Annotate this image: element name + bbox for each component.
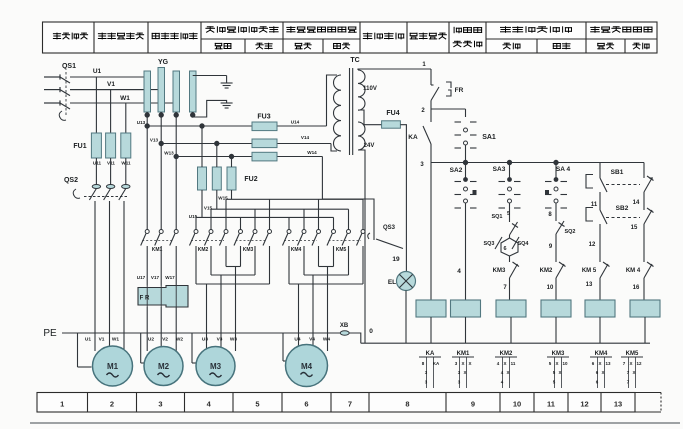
svg-text:U4: U4 <box>294 337 300 343</box>
svg-text:V3: V3 <box>217 337 223 343</box>
svg-text:V2: V2 <box>162 337 168 343</box>
svg-text:X: X <box>468 361 471 366</box>
svg-text:FU4: FU4 <box>386 110 399 117</box>
svg-text:5: 5 <box>507 211 510 217</box>
svg-text:4: 4 <box>457 268 461 275</box>
svg-text:SA1: SA1 <box>482 134 496 141</box>
svg-text:8: 8 <box>405 400 409 409</box>
svg-text:V1: V1 <box>107 81 115 88</box>
svg-text:V1: V1 <box>99 337 105 343</box>
svg-text:10: 10 <box>562 361 568 366</box>
svg-text:PE: PE <box>43 328 57 339</box>
svg-text:KM4: KM4 <box>595 351 608 357</box>
svg-text:12: 12 <box>580 400 588 409</box>
svg-text:12: 12 <box>636 361 642 366</box>
svg-text:KA: KA <box>433 361 440 366</box>
svg-text:KM 5: KM 5 <box>582 268 597 274</box>
svg-text:QS2: QS2 <box>64 177 78 184</box>
svg-text:V11: V11 <box>107 161 115 166</box>
svg-text:SA3: SA3 <box>493 166 506 173</box>
svg-text:X: X <box>632 370 635 375</box>
svg-text:15: 15 <box>631 225 638 231</box>
svg-text:FU3: FU3 <box>257 114 270 121</box>
svg-text:X: X <box>629 361 632 366</box>
svg-text:11: 11 <box>511 361 516 366</box>
svg-text:X: X <box>601 370 604 375</box>
svg-text:X: X <box>558 370 561 375</box>
svg-text:KM2: KM2 <box>500 351 513 357</box>
svg-text:19: 19 <box>392 256 400 263</box>
svg-text:13: 13 <box>605 361 611 366</box>
svg-text:V13: V13 <box>150 138 159 143</box>
svg-text:U17: U17 <box>137 275 146 280</box>
svg-text:SQ2: SQ2 <box>564 229 575 235</box>
svg-text:FR: FR <box>455 87 464 94</box>
svg-text:U14: U14 <box>291 120 300 125</box>
svg-text:W13: W13 <box>164 151 174 156</box>
svg-text:KM5: KM5 <box>336 247 347 253</box>
svg-text:M4: M4 <box>301 362 313 371</box>
svg-text:KM1: KM1 <box>457 351 470 357</box>
svg-text:FU1: FU1 <box>73 143 86 150</box>
svg-text:KM3: KM3 <box>493 268 506 274</box>
svg-text:KA: KA <box>426 351 435 357</box>
svg-text:13: 13 <box>614 400 622 409</box>
svg-text:KM2: KM2 <box>540 268 553 274</box>
svg-text:KM2: KM2 <box>198 247 209 253</box>
svg-text:110V: 110V <box>363 86 377 92</box>
svg-text:U13: U13 <box>137 120 146 125</box>
svg-text:KM3: KM3 <box>243 247 254 253</box>
svg-text:V14: V14 <box>301 135 310 140</box>
svg-text:16: 16 <box>633 285 640 291</box>
svg-text:SB1: SB1 <box>611 169 624 176</box>
svg-text:M3: M3 <box>210 362 222 371</box>
svg-text:11: 11 <box>547 400 555 409</box>
svg-text:6: 6 <box>304 400 308 409</box>
svg-text:13: 13 <box>586 282 593 288</box>
svg-text:X: X <box>555 361 558 366</box>
svg-text:SA 4: SA 4 <box>556 166 571 173</box>
svg-text:2: 2 <box>110 400 114 409</box>
svg-text:SB2: SB2 <box>616 205 629 212</box>
svg-text:KM3: KM3 <box>552 351 565 357</box>
svg-text:SQ1: SQ1 <box>491 214 502 220</box>
svg-text:M1: M1 <box>107 362 119 371</box>
svg-text:XB: XB <box>340 323 349 329</box>
svg-text:24V: 24V <box>364 143 375 149</box>
svg-text:SA2: SA2 <box>450 167 463 174</box>
svg-text:SQ4: SQ4 <box>517 241 529 247</box>
svg-text:TC: TC <box>350 57 359 64</box>
svg-text:7: 7 <box>348 400 352 409</box>
svg-text:U11: U11 <box>93 161 102 166</box>
svg-text:W3: W3 <box>230 337 238 343</box>
svg-text:SQ3: SQ3 <box>483 241 494 247</box>
svg-text:KM5: KM5 <box>626 351 639 357</box>
svg-text:QS3: QS3 <box>383 225 396 231</box>
svg-text:X: X <box>598 361 601 366</box>
svg-text:3: 3 <box>158 400 162 409</box>
svg-text:6: 6 <box>503 246 506 252</box>
svg-text:U3: U3 <box>202 337 208 343</box>
svg-text:X: X <box>503 361 506 366</box>
svg-text:V17: V17 <box>151 275 160 280</box>
svg-text:W14: W14 <box>307 150 317 155</box>
svg-text:EL: EL <box>388 279 396 286</box>
svg-text:V4: V4 <box>309 337 315 343</box>
svg-text:U1: U1 <box>85 337 91 343</box>
svg-text:12: 12 <box>589 242 596 248</box>
svg-text:U2: U2 <box>148 337 154 343</box>
svg-text:FU2: FU2 <box>244 176 257 183</box>
svg-text:5: 5 <box>255 400 259 409</box>
svg-text:10: 10 <box>547 285 554 291</box>
svg-text:U1: U1 <box>93 68 102 75</box>
svg-text:KM4: KM4 <box>291 247 302 253</box>
svg-text:W2: W2 <box>176 337 184 343</box>
svg-text:0: 0 <box>369 328 373 335</box>
svg-text:X: X <box>461 361 464 366</box>
svg-text:F R: F R <box>140 296 150 302</box>
svg-text:W17: W17 <box>165 275 175 280</box>
svg-text:KM 4: KM 4 <box>626 268 641 274</box>
svg-text:YG: YG <box>158 59 169 66</box>
svg-text:QS1: QS1 <box>62 63 76 70</box>
svg-text:14: 14 <box>633 200 640 206</box>
svg-text:X: X <box>506 370 509 375</box>
svg-text:X: X <box>463 370 466 375</box>
svg-text:10: 10 <box>513 400 521 409</box>
svg-text:M2: M2 <box>158 362 170 371</box>
svg-text:W1: W1 <box>120 95 130 102</box>
svg-text:W1: W1 <box>112 337 120 343</box>
svg-text:9: 9 <box>471 400 475 409</box>
svg-text:1: 1 <box>60 400 64 409</box>
svg-text:W4: W4 <box>323 337 331 343</box>
svg-text:KA: KA <box>408 134 418 141</box>
